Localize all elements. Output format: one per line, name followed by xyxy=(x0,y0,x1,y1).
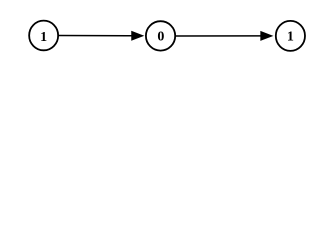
svg-text:1: 1 xyxy=(287,30,294,45)
node B circle (state 0) xyxy=(146,21,175,50)
node A circle (state 1) xyxy=(29,21,58,51)
arrowhead into node B xyxy=(132,31,144,40)
svg-text:1: 1 xyxy=(40,30,47,45)
wire edge from node B to node C xyxy=(176,35,261,37)
arrowhead into node C xyxy=(261,31,273,40)
wire edge from node A to node B xyxy=(59,35,132,37)
node C circle (state 1) xyxy=(276,21,305,51)
svg-text:0: 0 xyxy=(157,30,164,45)
